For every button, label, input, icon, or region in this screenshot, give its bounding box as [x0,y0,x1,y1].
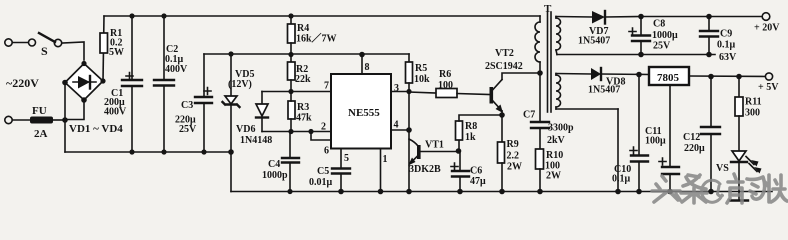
svg-text:+ 5V: + 5V [758,82,779,93]
IC NE555 [331,74,391,149]
svg-text:1N5407: 1N5407 [588,85,620,96]
svg-text:16k／7W: 16k／7W [296,32,337,45]
pin 4 [391,120,412,133]
node fuse junction [62,117,68,123]
svg-text:S: S [41,44,48,58]
capacitor C2 0.1u 400V [154,13,188,154]
wire +5V out [689,75,765,78]
svg-text:1N5407: 1N5407 [578,36,610,47]
capacitor C6 47u [451,151,486,194]
resistor R11 300 [735,74,762,151]
wire secondary lower bottom lead [556,108,618,110]
svg-text:VT1: VT1 [425,140,444,151]
svg-text:7805: 7805 [657,72,680,84]
transformer core [548,12,552,112]
svg-text:R8: R8 [465,121,477,132]
pin 1 [378,149,388,195]
svg-text:47k: 47k [296,113,312,124]
svg-text:25V: 25V [179,124,197,135]
pin 6 jog [311,132,331,141]
svg-text:47μ: 47μ [470,176,486,187]
svg-text:R4: R4 [297,23,309,34]
svg-text:2.2: 2.2 [507,151,520,162]
pin 5 and C5 0.01u [309,149,350,195]
wire 12V bus [204,53,409,55]
svg-text:100μ: 100μ [645,136,666,147]
transformer secondary lower [556,74,561,110]
capacitor C1 200u 400V [104,13,142,154]
svg-text:1N4148: 1N4148 [240,135,272,146]
top rail +300V [104,15,540,17]
svg-text:R6: R6 [439,69,451,80]
svg-text:22k: 22k [295,74,311,85]
svg-text:C4: C4 [268,159,280,170]
diode VD6 1N4148 [236,92,272,147]
svg-text:VT2: VT2 [495,48,514,59]
wire bridge right vertex up to R1 [103,16,104,81]
svg-text:5: 5 [344,153,349,164]
resistor R5 10k [406,54,431,94]
svg-text:1: 1 [383,154,388,165]
svg-text:400V: 400V [165,64,188,75]
bridge rectifier VD1~VD4 [62,61,123,135]
svg-text:2SC1942: 2SC1942 [485,61,523,72]
svg-text:C8: C8 [653,19,665,30]
wire pin2/6 net [262,131,331,133]
svg-text:300: 300 [745,108,760,119]
pin 8 [359,52,369,74]
wire bridge left vertex down [64,83,66,153]
snubber C7 3300p 2kV [523,73,574,149]
resistor R3 47k [288,92,312,132]
svg-text:2W: 2W [507,162,522,173]
svg-text:C9: C9 [720,29,732,40]
svg-text:(12V): (12V) [228,79,252,90]
svg-text:C3: C3 [181,100,193,111]
svg-text:0.01μ: 0.01μ [309,177,333,188]
svg-text:10k: 10k [414,74,430,85]
svg-text:3300p: 3300p [548,123,574,134]
wire pin7 net [262,91,331,93]
svg-text:C12: C12 [683,132,700,143]
node rail corner [228,149,234,155]
svg-text:1000p: 1000p [262,170,288,181]
watermark [652,174,787,203]
svg-text:2W: 2W [546,171,561,182]
wire switch to bridge top [62,42,84,60]
capacitor C3 220u 25V [175,54,212,155]
capacitor C11 100u [645,85,679,194]
transistor VT2 2SC1942 [485,48,540,118]
svg-text:1k: 1k [465,132,476,143]
diode VD8 1N5407 [588,68,649,96]
capacitor C10 0.1u [612,72,648,195]
svg-text:NE555: NE555 [348,107,380,119]
svg-text:R3: R3 [297,102,309,113]
svg-text:C7: C7 [523,110,535,121]
transistor VT1 3DK2B [406,130,458,194]
svg-text:2A: 2A [34,128,48,140]
wire secondary upper top lead [556,16,592,19]
terminal circle AC live [5,39,28,46]
transformer secondary upper [556,17,561,55]
capacitor C12 220u [683,74,720,195]
LED VS [716,151,762,201]
svg-text:7: 7 [324,81,329,92]
resistor R4 16k/7W [288,13,337,54]
fuse FU 2A [30,105,65,140]
zener VD5 (12V) [223,51,255,152]
svg-text:1000μ: 1000μ [652,30,678,41]
svg-text:VD1 ~ VD4: VD1 ~ VD4 [69,123,123,135]
wire pin3 to R6 [409,92,436,93]
resistor R6 100 [436,69,490,98]
svg-text:R10: R10 [546,150,563,161]
svg-text:FU: FU [32,105,47,117]
svg-text:R5: R5 [415,63,427,74]
switch S [29,33,62,58]
svg-text:0.1μ: 0.1μ [717,40,736,51]
svg-text:100: 100 [438,80,453,91]
svg-text:63V: 63V [719,52,737,63]
capacitor C8 1000u 25V [629,14,678,58]
diode VD7 1N5407 [578,11,641,47]
terminal circle AC neutral [5,116,30,123]
svg-text:VD6: VD6 [236,124,255,135]
svg-text:C6: C6 [470,166,482,177]
svg-text:2kV: 2kV [547,135,566,146]
wire secondary lower top lead [556,73,591,76]
+5V terminal [758,73,779,93]
svg-text:+ 20V: + 20V [754,23,780,34]
svg-text:25V: 25V [653,41,671,52]
svg-text:6: 6 [324,146,329,157]
resistor R2 22k [288,52,312,92]
wire bridge bottom vertex bracket [65,100,84,120]
svg-text:3: 3 [394,83,399,94]
wire R5 junction down to pin4 node [408,92,410,131]
svg-text:3DK2B: 3DK2B [409,164,441,175]
svg-text:220μ: 220μ [684,143,705,154]
left bottom rail [65,151,231,153]
+20V terminal [754,13,780,34]
wire secondary return down [617,109,619,192]
svg-text:R11: R11 [745,97,762,108]
bottom rail [231,191,772,193]
capacitor C4 1000p [262,132,299,195]
resistor R9 2.2 2W [498,115,523,194]
wire +20V rail [641,16,762,18]
svg-text:4: 4 [394,120,399,131]
wire rail step down [230,152,232,192]
regulator 7805 [649,67,689,85]
pin 3 [391,83,409,94]
capacitor C9 0.1u 63V [700,14,737,63]
svg-text:400V: 400V [104,107,127,118]
transformer T primary [535,3,552,76]
svg-text:8: 8 [365,62,370,73]
svg-text:~220V: ~220V [6,76,39,90]
resistor R10 100 2W [536,149,564,194]
svg-text:R9: R9 [507,139,519,150]
svg-text:5W: 5W [109,47,124,58]
svg-text:2: 2 [321,122,326,133]
svg-text:C5: C5 [317,166,329,177]
resistor R1 0.2 5W [100,28,124,58]
resistor R8 1k [456,115,502,154]
wire 0V bus secondary upper return [557,54,715,56]
svg-text:0.1μ: 0.1μ [612,174,631,185]
svg-text:VS: VS [716,163,729,174]
